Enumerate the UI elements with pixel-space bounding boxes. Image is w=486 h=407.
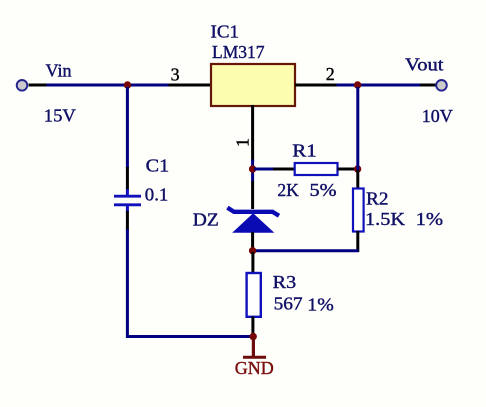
pin 3 of IC1 (black) xyxy=(169,84,213,87)
wire node A to IC pin 3 xyxy=(126,84,170,87)
terminal Vin port circle xyxy=(17,80,28,91)
wire IC pin1 to node C xyxy=(251,160,254,171)
wire R2 bottom to node F xyxy=(253,249,359,252)
pin of R1 left (black) xyxy=(273,168,296,171)
pin of R1 right (black) xyxy=(338,168,358,171)
resistor R3 body xyxy=(247,273,261,317)
pin of C1 top (black) xyxy=(126,167,129,190)
svg-text:GND: GND xyxy=(235,358,274,378)
resistor R1 body xyxy=(295,163,338,175)
wire node A down to C1 xyxy=(126,87,129,169)
svg-text:1: 1 xyxy=(233,138,253,147)
pin of R3 bottom (black) xyxy=(251,317,254,338)
pin of R2 top (black) xyxy=(356,170,359,190)
wire node C to R1 xyxy=(254,168,275,171)
node C junction xyxy=(249,165,256,172)
resistor R2 body xyxy=(353,189,364,232)
svg-text:3: 3 xyxy=(171,65,180,85)
capacitor C1 bottom lead stub xyxy=(126,205,129,212)
node E junction xyxy=(250,333,257,340)
svg-text:Vout: Vout xyxy=(405,54,444,74)
pin 1 of IC1 (black, down) xyxy=(251,105,254,161)
svg-text:LM317: LM317 xyxy=(212,42,265,62)
pin of DZ cathode (black) xyxy=(251,181,254,209)
svg-text:5%: 5% xyxy=(310,180,337,200)
svg-text:10V: 10V xyxy=(422,106,453,126)
pin of Vout terminal (black) xyxy=(420,84,436,87)
svg-text:15V: 15V xyxy=(44,106,76,126)
pin of C1 bottom (black) xyxy=(126,211,129,231)
wire node B down to node D xyxy=(356,87,359,170)
svg-text:Vin: Vin xyxy=(46,61,72,81)
terminal Vout port circle xyxy=(436,80,447,91)
svg-text:C1: C1 xyxy=(146,155,170,175)
pin of Vin terminal (black) xyxy=(29,84,48,87)
ground stub xyxy=(252,338,255,357)
node A junction xyxy=(124,81,131,88)
svg-text:2: 2 xyxy=(326,64,335,84)
wire node B to Vout terminal xyxy=(356,84,422,87)
svg-text:1.5K: 1.5K xyxy=(365,209,405,229)
svg-text:1%: 1% xyxy=(307,295,334,315)
ground bar xyxy=(243,356,266,359)
node D junction xyxy=(354,165,361,172)
zener diode DZ triangle xyxy=(232,213,274,233)
svg-text:R3: R3 xyxy=(273,272,297,292)
wire node C down to DZ xyxy=(251,168,254,182)
op-amp / regulator IC1 body xyxy=(211,64,295,106)
pin 2 of IC1 (black) xyxy=(295,84,339,87)
pin of R3 top (black) xyxy=(251,252,254,274)
capacitor C1 bottom plate xyxy=(114,203,141,206)
capacitor C1 top plate xyxy=(114,195,141,198)
svg-text:IC1: IC1 xyxy=(211,22,240,42)
svg-text:567: 567 xyxy=(274,294,303,314)
node F junction xyxy=(249,247,256,254)
svg-text:2K: 2K xyxy=(277,180,299,200)
svg-text:1%: 1% xyxy=(416,209,444,229)
pin of R2 bottom (black) xyxy=(356,231,359,252)
wire Vin terminal to node A xyxy=(47,84,130,87)
wire C1 bottom down and right to node E xyxy=(127,229,251,337)
svg-text:0.1: 0.1 xyxy=(145,184,169,204)
wire IC pin2 to node B xyxy=(337,84,360,87)
svg-text:R2: R2 xyxy=(366,188,389,208)
pin of DZ anode (black) xyxy=(251,232,254,252)
zener diode DZ cathode bar xyxy=(227,208,279,216)
svg-text:R1: R1 xyxy=(292,141,317,161)
node B junction xyxy=(354,81,361,88)
capacitor C1 top lead stub xyxy=(126,189,129,196)
svg-text:DZ: DZ xyxy=(193,210,219,230)
